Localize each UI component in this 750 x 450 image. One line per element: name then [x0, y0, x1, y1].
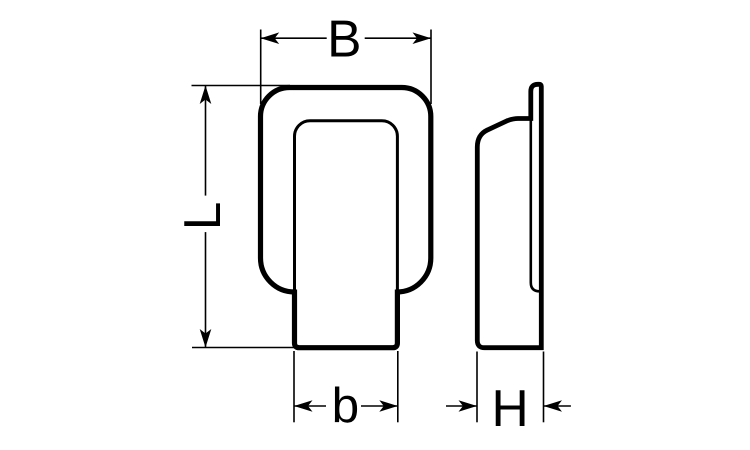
svg-text:H: H — [491, 379, 528, 437]
svg-text:L: L — [173, 202, 231, 231]
svg-text:B: B — [327, 10, 361, 68]
svg-text:b: b — [332, 378, 360, 433]
